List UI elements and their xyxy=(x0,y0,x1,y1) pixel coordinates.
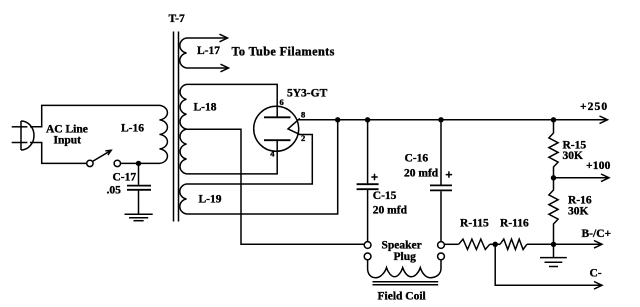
wire L-17 top lead with arrow xyxy=(187,34,228,42)
svg-text:5Y3-GT: 5Y3-GT xyxy=(287,88,328,100)
winding L-16 (primary) xyxy=(160,105,168,163)
resistor R-116 xyxy=(500,239,527,249)
arrow B-/C+ terminal xyxy=(594,241,602,249)
node rail/C-15 xyxy=(365,117,370,122)
AC plug xyxy=(12,121,34,150)
node R-115/R-116/C- junction xyxy=(493,242,498,247)
capacitor C-15 xyxy=(357,120,379,242)
svg-text:Speaker: Speaker xyxy=(382,240,422,252)
svg-text:Input: Input xyxy=(54,135,82,147)
svg-text:30K: 30K xyxy=(568,206,589,218)
node rail/L-19 return xyxy=(335,117,340,122)
svg-text:+100: +100 xyxy=(586,160,611,172)
wire C- from junction xyxy=(495,244,601,285)
capacitor C-17 xyxy=(127,163,151,213)
wire B-/C+ terminal xyxy=(554,243,602,245)
svg-text:L-16: L-16 xyxy=(121,123,144,135)
speaker plug connector xyxy=(364,242,444,260)
svg-text:L-19: L-19 xyxy=(199,194,222,206)
wire L-18 center tap to speaker plug xyxy=(187,129,365,244)
wire L-18 top to tube pin 6 xyxy=(187,84,278,117)
tube U1 5Y3-GT xyxy=(254,106,301,151)
svg-text:C-: C- xyxy=(590,268,602,280)
wire pin 8 to +250 rail xyxy=(299,119,607,121)
node switch/C-17/L-16 junction xyxy=(136,161,141,166)
resistor R-16 xyxy=(549,178,558,245)
resistor R-15 xyxy=(549,120,558,178)
svg-text:6: 6 xyxy=(280,97,284,107)
svg-text:8: 8 xyxy=(301,110,305,120)
winding L-19 (rectifier filament) xyxy=(180,184,187,214)
svg-text:R-16: R-16 xyxy=(568,194,592,206)
label AC Line Input xyxy=(46,124,88,147)
svg-text:Field Coil: Field Coil xyxy=(378,291,426,303)
node rail/C-16 xyxy=(438,117,443,122)
capacitor C-16 xyxy=(430,120,452,242)
svg-text:+250: +250 xyxy=(580,101,608,113)
arrow +250 terminal xyxy=(600,116,608,124)
label Speaker Plug xyxy=(382,240,422,264)
wire plug to R-115 xyxy=(444,243,458,245)
svg-text:R-116: R-116 xyxy=(500,218,529,230)
svg-text:B-/C+: B-/C+ xyxy=(582,228,612,240)
svg-text:T-7: T-7 xyxy=(169,13,185,25)
svg-text:4: 4 xyxy=(270,149,275,159)
node +100 junction xyxy=(551,175,556,180)
wire L-18 bottom to tube pin 4 xyxy=(187,140,278,174)
node rail/R-15 xyxy=(551,117,556,122)
wire +100 terminal xyxy=(554,177,609,179)
svg-text:C-15: C-15 xyxy=(373,190,397,202)
ground at C-17 xyxy=(125,214,153,220)
transformer T-7 core xyxy=(174,32,179,222)
wire L-17 bottom lead with arrow xyxy=(187,64,229,72)
winding L-17 (filament winding) xyxy=(180,38,187,68)
svg-text:.05: .05 xyxy=(107,185,122,197)
node B-/C+ junction xyxy=(551,242,556,247)
ground at B- junction xyxy=(540,244,567,266)
wire L-19 top to tube pin 2 xyxy=(187,135,313,185)
wire R-115 to R-116 xyxy=(490,243,500,245)
winding L-18 (high voltage secondary) xyxy=(180,84,186,173)
resistor R-115 xyxy=(459,239,490,249)
wire L-19 bottom to B+ rail node xyxy=(187,120,338,214)
svg-text:R-115: R-115 xyxy=(460,218,489,230)
svg-text:Plug: Plug xyxy=(394,251,417,263)
arrow +100 terminal xyxy=(601,174,609,182)
field coil winding xyxy=(368,260,441,278)
svg-text:To Tube Filaments: To Tube Filaments xyxy=(232,45,335,59)
svg-text:L-17: L-17 xyxy=(197,45,220,57)
arrow C- terminal xyxy=(594,282,602,290)
svg-text:L-18: L-18 xyxy=(194,102,217,114)
wire plug top prong to L-16 top xyxy=(30,105,160,126)
svg-text:C-17: C-17 xyxy=(113,172,137,184)
wire switch to C-17 node and L-16 bottom xyxy=(121,162,160,164)
svg-text:30K: 30K xyxy=(563,150,584,162)
wire R-116 to B- node xyxy=(527,243,554,245)
switch S1 xyxy=(87,150,121,166)
svg-text:2: 2 xyxy=(301,133,305,143)
field coil core xyxy=(373,282,439,285)
wire plug bottom prong to switch xyxy=(30,143,87,164)
svg-text:20 mfd: 20 mfd xyxy=(373,205,408,217)
svg-text:20 mfd: 20 mfd xyxy=(404,168,439,180)
svg-text:C-16: C-16 xyxy=(405,153,429,165)
